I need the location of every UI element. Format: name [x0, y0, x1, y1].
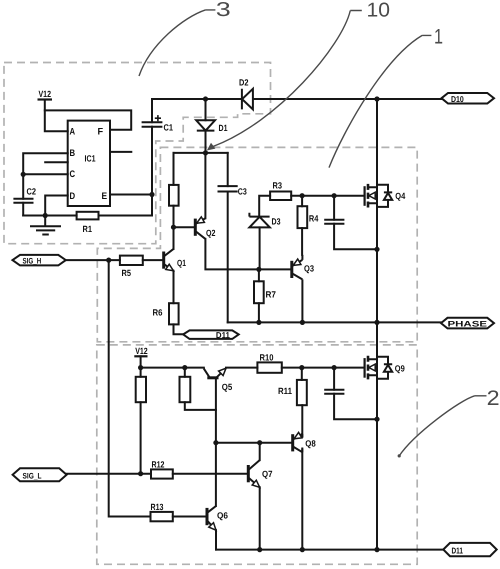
transistor Q7	[247, 465, 250, 482]
wire C3 top lead	[227, 153, 229, 186]
svg-text:D10: D10	[451, 94, 464, 104]
node V12 rail / RA	[138, 365, 143, 370]
resistor R1	[77, 212, 99, 220]
svg-text:D1: D1	[219, 123, 228, 133]
wire RA leads	[140, 368, 142, 474]
snubber capacitor C4	[324, 220, 344, 224]
svg-text:R6: R6	[153, 308, 163, 318]
wire R1 rail	[23, 215, 152, 217]
transistor Q8	[291, 434, 294, 451]
svg-text:C: C	[70, 169, 76, 180]
capacitor C1 (electrolytic)	[142, 122, 163, 127]
IC U1 body	[68, 121, 110, 206]
svg-text:D11: D11	[452, 546, 464, 556]
wire Q4 drain vertical	[376, 99, 378, 187]
node pin B-C bus	[21, 172, 26, 177]
resistor RB	[180, 377, 191, 402]
node SIG_H branch	[106, 258, 111, 263]
svg-text:R5: R5	[122, 268, 132, 278]
transistor Q6	[206, 508, 209, 525]
svg-text:Q8: Q8	[305, 439, 316, 449]
wire pin C to left bus	[23, 173, 67, 175]
wire R12 to Q7 base	[173, 473, 249, 475]
net flag PHASE	[441, 318, 494, 329]
svg-text:F: F	[98, 127, 104, 138]
wire Q4 source to phase rail	[376, 203, 378, 322]
wire R5 to Q1 base	[143, 259, 164, 261]
transistor Q2	[194, 219, 197, 236]
resistor R11	[297, 380, 307, 405]
svg-text:D2: D2	[239, 78, 249, 88]
wire Q7 emitter down	[259, 487, 261, 549]
svg-text:C3: C3	[238, 186, 247, 196]
net flag SIG_H	[13, 255, 66, 266]
svg-text:B: B	[70, 148, 76, 159]
transistor Q5	[207, 376, 218, 379]
wire Q section top rail	[174, 152, 228, 154]
leader line for label 1	[329, 35, 431, 167]
ground	[30, 216, 61, 235]
resistor R13	[151, 512, 173, 521]
resistor R6	[169, 303, 179, 324]
resistor R5	[120, 256, 143, 265]
wire snubber cap C4 bottom lead	[334, 224, 377, 250]
node phase / Q4-Q9	[374, 320, 379, 325]
node gate2 / R11	[299, 365, 304, 370]
wire R4 leads	[301, 196, 303, 255]
svg-text:Q2: Q2	[206, 228, 216, 238]
node bottom rail / Q7 emitter	[257, 547, 262, 552]
mosfet Q4	[364, 186, 366, 206]
node Q9 source / C9	[374, 417, 379, 422]
node bottom rail / Q9 source	[374, 547, 379, 552]
wire Q1 collector up	[173, 227, 175, 249]
transistor Q1	[162, 252, 165, 269]
node top rail / D1 branch	[203, 96, 208, 101]
node Q7 collector / Q8 base	[257, 440, 262, 445]
svg-text:A: A	[70, 127, 76, 138]
svg-text:3: 3	[216, 0, 231, 21]
wire IC right stub	[110, 151, 131, 153]
node top rail / Q4 drain	[374, 96, 379, 101]
wire Q6 emitter down	[215, 530, 217, 549]
zener diode D3	[249, 213, 269, 217]
wire top rail left segment (C1 to D2)	[152, 98, 242, 100]
wire Q2 emitter up	[204, 153, 206, 218]
resistor R2	[169, 185, 179, 206]
svg-text:Q6: Q6	[217, 511, 228, 521]
net flag D11 (upper)	[183, 330, 239, 339]
node pin E / C1	[149, 192, 154, 197]
wire SIG_L to R12	[67, 473, 151, 475]
resistor R3	[270, 192, 291, 201]
wire C2 bottom to R1 rail	[22, 203, 24, 216]
net flag D10	[442, 93, 495, 104]
wire SIG_H drop to R13	[109, 260, 151, 516]
wire Q7 collector up	[259, 443, 261, 460]
wire bottom rail to D11	[216, 549, 443, 551]
node Q5 base / Q8 base rail	[213, 440, 218, 445]
snubber capacitor C9	[324, 390, 344, 394]
node D3 / R7 / Q3 base	[256, 267, 261, 272]
wire pin D down to ground rail	[45, 196, 67, 216]
dashed module box 1 outline	[97, 147, 417, 341]
svg-text:10: 10	[367, 0, 391, 22]
leader line for label 2	[398, 396, 487, 458]
node SIG_L / RA	[138, 471, 143, 476]
node gate2 / C9	[332, 365, 337, 370]
wire pin E to C1 bottom	[110, 194, 152, 196]
wire lower V12 drop	[140, 356, 142, 367]
wire Q9 source down to bottom rail	[376, 375, 378, 549]
diode D1	[196, 120, 215, 130]
svg-text:SIG_L: SIG_L	[23, 471, 42, 480]
dashed module box 3 outline	[4, 63, 271, 244]
resistor R10	[257, 362, 281, 372]
power symbol V12 (lower)	[134, 355, 147, 357]
leader line for label 3	[139, 10, 215, 76]
wire R6 bottom to D11 flag	[174, 324, 184, 334]
wire Q8 collector down	[301, 449, 303, 550]
mosfet Q9	[364, 358, 366, 378]
wire C3 bottom to phase rail	[227, 192, 229, 323]
wire Q8 emitter to R11	[301, 405, 303, 437]
capacitor C3	[218, 186, 238, 191]
svg-text:D: D	[70, 191, 76, 202]
svg-text:1: 1	[434, 26, 443, 49]
svg-text:Q7: Q7	[262, 469, 273, 479]
wire snubber cap C9 top lead	[333, 368, 335, 390]
node phase / R7	[256, 320, 261, 325]
svg-text:V12: V12	[39, 89, 52, 99]
dashed module box 2 outline	[97, 345, 417, 564]
wire Q1 emitter to R6	[173, 271, 175, 303]
svg-text:D11: D11	[216, 330, 230, 340]
svg-text:Q9: Q9	[395, 364, 405, 374]
wire IC left stub	[45, 161, 67, 163]
node phase / Q3 collector	[300, 320, 305, 325]
svg-text:R3: R3	[273, 181, 283, 191]
svg-text:V12: V12	[135, 346, 148, 356]
wire top rail right segment (D2 to D10)	[253, 98, 442, 100]
wire RB leads to Q5 base	[185, 368, 216, 410]
wire V12 supply drop to pin A	[45, 100, 68, 132]
wire R3 right to Q4 gate	[291, 195, 364, 197]
svg-text:R11: R11	[278, 386, 292, 396]
node gate / C4	[332, 193, 337, 198]
node Q2 base / R2	[171, 225, 176, 230]
svg-text:R12: R12	[152, 459, 165, 469]
resistor R12	[151, 469, 173, 478]
svg-text:R4: R4	[309, 214, 319, 224]
wire Q5 base down to Q6 collector	[215, 378, 217, 506]
svg-text:R1: R1	[83, 224, 93, 234]
wire R11 top lead	[301, 368, 303, 380]
node Q4 source / C4	[374, 247, 379, 252]
wire snubber cap C4 top lead	[333, 196, 335, 220]
svg-text:E: E	[102, 191, 108, 202]
wire R2 top lead	[173, 153, 175, 185]
wire D3 bottom to Q3 base	[259, 227, 261, 269]
svg-text:Q3: Q3	[304, 264, 314, 274]
resistor RA	[136, 377, 146, 402]
svg-text:IC1: IC1	[85, 154, 96, 164]
net flag D11 (lower)	[443, 543, 496, 556]
node V12 rail / RB	[182, 365, 187, 370]
net flag SIG_L	[13, 468, 67, 481]
node R3 / R4 gate	[300, 193, 305, 198]
wire R2 bottom to Q1 collector node	[173, 206, 175, 249]
capacitor C2	[13, 199, 33, 203]
transistor Q3	[290, 261, 293, 278]
resistor R4	[298, 206, 308, 228]
wire R7 leads	[258, 269, 260, 322]
svg-text:D3: D3	[272, 216, 281, 226]
wire Q8 base rail	[216, 442, 293, 444]
wire D1 branch vertical	[205, 99, 207, 153]
svg-text:R13: R13	[151, 502, 164, 512]
wire R13 to Q6 base	[173, 516, 207, 518]
wire R3 left to D3	[259, 196, 270, 217]
wire pin B to left bus	[23, 153, 67, 199]
svg-text:C2: C2	[27, 186, 37, 196]
node bottom rail / Q8 collector	[300, 547, 305, 552]
wire Q5 emitter to R10	[226, 367, 257, 369]
wire SIG_H to R5	[66, 259, 120, 261]
wire C1 vertical top	[151, 99, 153, 122]
wire V12 branch to pin F	[45, 110, 131, 129]
wire lower V12 rail	[141, 367, 204, 369]
svg-text:SIG_H: SIG_H	[23, 256, 42, 265]
resistor R7	[254, 281, 264, 303]
diode D2	[242, 89, 253, 110]
wire R10 to Q9 gate	[282, 367, 365, 369]
svg-text:C1: C1	[164, 123, 174, 133]
svg-text:Q1: Q1	[177, 258, 186, 268]
svg-text:2: 2	[487, 387, 500, 410]
wire Q9 drain vertical	[376, 322, 378, 359]
node ground / pin D	[43, 213, 48, 218]
power symbol V12 (top)	[38, 98, 53, 100]
leader line for label 10 with arrow	[207, 11, 362, 151]
svg-text:R10: R10	[260, 353, 274, 363]
wire snubber cap C9 bottom lead	[334, 394, 377, 419]
wire Q2 collector down to Q3 base	[205, 239, 291, 270]
node D1 / Q2 emitter rail	[203, 150, 208, 155]
svg-text:Q4: Q4	[395, 191, 405, 201]
svg-text:Q5: Q5	[222, 382, 233, 392]
svg-text:R7: R7	[266, 289, 277, 299]
svg-text:PHASE: PHASE	[448, 320, 488, 329]
wire phase rail	[228, 321, 441, 323]
wire Q2 base	[174, 226, 196, 228]
wire C1 bottom vertical	[151, 127, 153, 216]
